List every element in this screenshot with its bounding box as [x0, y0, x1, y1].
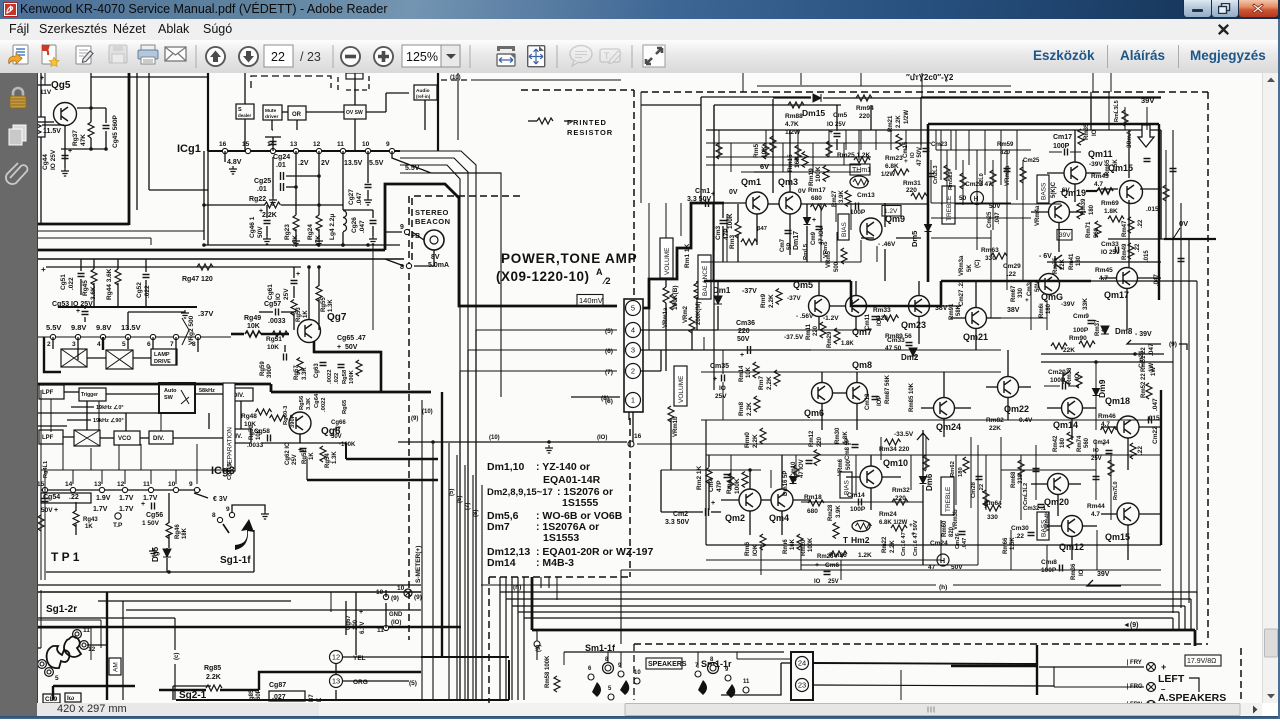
wire y352 bold — [314, 351, 381, 354]
svg-text:Rg56: Rg56 — [299, 395, 305, 410]
bold wires bottom left speakers — [508, 660, 510, 700]
svg-text:Cg44: Cg44 — [42, 154, 49, 170]
svg-text:47P: 47P — [716, 480, 723, 492]
svg-text:VRm4b: VRm4b — [1045, 511, 1051, 532]
svg-text:Cg45 560P: Cg45 560P — [112, 114, 119, 148]
svg-text:-37V: -37V — [742, 288, 757, 295]
wire x855 lower — [855, 455, 857, 495]
pin 9 stub switch — [229, 512, 234, 517]
wire top right corner — [1091, 96, 1161, 98]
svg-text:100: 100 — [353, 619, 359, 630]
bold corner bottom right — [951, 665, 1037, 667]
svg-text:STEREO: STEREO — [415, 208, 449, 217]
transistor Qm21 — [966, 308, 987, 329]
svg-text:4.7: 4.7 — [1094, 181, 1103, 188]
circled 13 ORG — [330, 675, 343, 688]
svg-text:22K: 22K — [989, 425, 1001, 432]
wires ICg3 blocks — [64, 391, 79, 393]
svg-text:Cm25: Cm25 — [1023, 158, 1040, 164]
svg-text:2: 2 — [631, 367, 635, 376]
wires bottom amp rows — [706, 559, 941, 561]
svg-text:1.3K: 1.3K — [328, 299, 334, 312]
svg-text:Qm10: Qm10 — [883, 458, 908, 468]
junction dots bus — [202, 243, 206, 247]
svg-text:Rm68: Rm68 — [1011, 471, 1017, 488]
svg-text:5: 5 — [631, 304, 635, 313]
wires Qm17 Qm15 — [1138, 277, 1161, 279]
boxed BASS lower — [1037, 512, 1049, 540]
svg-text:3: 3 — [72, 341, 76, 348]
connector circle 5 — [626, 301, 641, 316]
svg-text:50V: 50V — [737, 336, 750, 343]
boxed 39V — [1057, 230, 1072, 241]
svg-text:10: 10 — [376, 589, 384, 596]
wire y307 — [58, 306, 197, 308]
svg-text:◄(9): ◄(9) — [1123, 622, 1138, 629]
transistor QmG lower — [1055, 255, 1062, 269]
svg-text:Rm14: Rm14 — [739, 365, 745, 382]
svg-text:VOLUME: VOLUME — [678, 375, 685, 403]
svg-text:Trigger: Trigger — [81, 392, 98, 398]
svg-text:Cg46 1: Cg46 1 — [249, 216, 256, 238]
svg-text:.22: .22 — [1138, 219, 1144, 228]
wire Qg7 collector — [308, 267, 310, 320]
svg-text:Rm24: Rm24 — [879, 511, 897, 518]
svg-text:6: 6 — [147, 341, 151, 348]
svg-text:Rm25 1.2K: Rm25 1.2K — [837, 152, 871, 159]
svg-text:Cm28: Cm28 — [971, 481, 977, 498]
svg-text:RESISTOR: RESISTOR — [567, 128, 613, 137]
svg-text:.01: .01 — [276, 162, 286, 169]
wire pin9 diagonal — [392, 151, 501, 173]
svg-text:10: 10 — [397, 585, 405, 592]
sign/edit icon — [76, 46, 93, 64]
svg-text:.047: .047 — [359, 220, 366, 233]
svg-text:+: + — [1161, 662, 1166, 672]
svg-text:5(K)C: 5(K)C — [1051, 181, 1057, 198]
svg-text:Rg43: Rg43 — [83, 517, 98, 523]
box Mute driver — [263, 105, 282, 120]
svg-text:Dm2: Dm2 — [901, 353, 919, 362]
svg-text:Qm1: Qm1 — [741, 177, 761, 187]
svg-text:Cm16 47 50V: Cm16 47 50V — [913, 520, 919, 556]
svg-text:Rm82: Rm82 — [986, 417, 1004, 424]
svg-text:1S1555: 1S1555 — [562, 497, 598, 509]
resistor Rg44 3.6K — [115, 269, 121, 285]
paperclip icon — [6, 163, 28, 184]
svg-text:9: 9 — [386, 141, 390, 148]
wires from 24 23 — [813, 663, 1037, 664]
transistor Qm18 — [1117, 416, 1139, 438]
svg-text:+: + — [40, 75, 44, 82]
svg-text:OR: OR — [292, 112, 302, 118]
svg-text:Cm2Ĺ3: Cm2Ĺ3 — [932, 165, 939, 184]
svg-text:Rg59: Rg59 — [260, 361, 266, 376]
svg-text:Rm71: Rm71 — [1086, 221, 1092, 238]
box LPF 1 — [39, 385, 64, 399]
svg-text:1.7V: 1.7V — [143, 495, 158, 502]
svg-text:-1.2V: -1.2V — [823, 315, 839, 322]
upper right caps area — [1144, 159, 1151, 162]
svg-text:16: 16 — [634, 433, 642, 440]
svg-text:6.8K: 6.8K — [885, 163, 899, 170]
svg-text:10K: 10K — [267, 344, 279, 351]
bottom small boxes — [43, 694, 60, 703]
mixer crossbox 3 — [74, 430, 100, 446]
svg-text:22: 22 — [271, 50, 285, 64]
connector circle 4 — [626, 323, 641, 338]
svg-text:- 0.4V: - 0.4V — [1015, 417, 1033, 424]
svg-text:- .56V: - .56V — [796, 313, 814, 320]
svg-text:25V: 25V — [292, 454, 298, 465]
svg-text:Rm37: Rm37 — [1095, 319, 1101, 336]
svg-text:13.5V: 13.5V — [344, 160, 363, 167]
svg-text:50V: 50V — [41, 507, 53, 514]
component box at left edge — [31, 117, 45, 137]
pin (9) to switch — [534, 641, 540, 647]
wire pin bus extension — [150, 238, 152, 245]
bold wires mixers — [44, 337, 61, 372]
svg-text:VRm2: VRm2 — [683, 305, 689, 323]
svg-text:Dm1: Dm1 — [713, 286, 731, 295]
bold border vertical x128 — [128, 73, 131, 225]
resistor Rg23 10K — [293, 215, 299, 231]
svg-text:(8): (8) — [601, 395, 609, 402]
svg-text:BASS: BASS — [1040, 182, 1047, 200]
svg-text:Cg67: Cg67 — [346, 615, 352, 630]
top thin rail y86 — [757, 85, 1011, 87]
svg-text:+: + — [54, 507, 58, 514]
capacitor Cg52 .022 — [143, 275, 150, 278]
svg-text:2.2K: 2.2K — [746, 402, 753, 416]
wires Qm1 Qm3 top — [772, 99, 774, 193]
svg-text:(7): (7) — [465, 503, 471, 510]
svg-text:Cm16 47: Cm16 47 — [901, 532, 907, 556]
svg-text:Rm45: Rm45 — [1095, 267, 1113, 274]
boxed BIAS vertical — [838, 214, 849, 240]
svg-text:Qm6: Qm6 — [804, 408, 824, 418]
svg-text:Rm60: Rm60 — [942, 520, 948, 537]
svg-text:A.SPEAKERS: A.SPEAKERS — [1158, 692, 1226, 703]
svg-text:Cm7: Cm7 — [780, 238, 786, 252]
ICg3 pin stubs — [44, 470, 46, 484]
svg-text:VRm1a: VRm1a — [663, 307, 669, 328]
svg-text:.0033: .0033 — [268, 318, 286, 325]
resistor Rg53 1K — [291, 300, 297, 316]
wire top centre — [471, 79, 621, 81]
svg-text:CĹ9: CĹ9 — [45, 694, 58, 703]
svg-text:8: 8 — [212, 512, 216, 519]
svg-text:10: 10 — [168, 481, 176, 488]
bold feed tone stack — [928, 123, 1159, 126]
bus y350 — [811, 349, 1001, 351]
svg-text:-39V: -39V — [1061, 301, 1075, 308]
svg-text:60P: 60P — [256, 689, 262, 700]
svg-text:Rm89 56: Rm89 56 — [885, 333, 912, 340]
svg-text:5.5V: 5.5V — [46, 323, 61, 332]
svg-text:3.3 50V: 3.3 50V — [665, 519, 689, 526]
svg-text:Dm17: Dm17 — [793, 231, 800, 250]
svg-text:Rm87 56K: Rm87 56K — [885, 374, 891, 404]
svg-text:IO: IO — [910, 151, 916, 158]
wires Qm5 row — [830, 305, 845, 307]
svg-text:1.8K: 1.8K — [841, 341, 854, 347]
lamp stereo beacon — [424, 230, 444, 250]
svg-text:Rm2 1K: Rm2 1K — [696, 465, 703, 490]
svg-text:24: 24 — [798, 659, 806, 668]
svg-text:Dm8: Dm8 — [1115, 327, 1133, 336]
left edge marks icg1 — [44, 73, 46, 85]
transistor Qm22 — [998, 377, 1019, 398]
amp lower box — [705, 420, 707, 545]
svg-text:13: 13 — [94, 481, 102, 488]
res fillers tone top — [944, 165, 950, 181]
transistor Qm20 — [1048, 474, 1069, 495]
svg-text:❘FRG: ❘FRG — [1125, 683, 1143, 690]
svg-text:Rm11: Rm11 — [806, 323, 812, 340]
svg-text:Cm33: Cm33 — [1101, 241, 1119, 248]
down arrow 30mA — [1138, 125, 1154, 147]
create pdf icon — [42, 45, 59, 66]
svg-text:19kHz ∠0°: 19kHz ∠0° — [96, 404, 124, 411]
svg-text:1.2V: 1.2V — [884, 208, 898, 215]
svg-text:3: 3 — [631, 346, 635, 355]
transistor Qm11 — [1064, 162, 1086, 184]
svg-text:IO 25V: IO 25V — [827, 122, 846, 128]
boxed BASS vertical — [1037, 175, 1049, 203]
ICg2 pin row — [38, 336, 231, 338]
svg-text:Rm85 10K: Rm85 10K — [909, 382, 915, 412]
svg-text:Cg24: Cg24 — [273, 154, 290, 161]
fit page — [528, 46, 545, 67]
wire vertical x148 — [148, 73, 150, 190]
svg-text:6V: 6V — [760, 162, 769, 171]
svg-text:.37V: .37V — [198, 309, 213, 318]
svg-text:Qm2: Qm2 — [725, 513, 745, 523]
transistor Qm13 small — [1063, 371, 1070, 385]
left edge verticals lower — [40, 390, 42, 580]
switch contacts double circles — [73, 630, 82, 639]
svg-text:(IO): (IO) — [597, 435, 607, 441]
svg-text:180: 180 — [1060, 437, 1066, 448]
svg-text:Rm7Ĺ0: Rm7Ĺ0 — [1112, 481, 1119, 500]
bold wire into Qg7 — [231, 333, 244, 336]
transistor Qm24 — [934, 398, 955, 419]
svg-text:A: A — [596, 267, 603, 277]
svg-text:9: 9 — [400, 224, 404, 231]
svg-text:Rg60-3: Rg60-3 — [283, 405, 289, 425]
svg-text:.015: .015 — [1146, 206, 1159, 213]
svg-text:6: 6 — [588, 666, 592, 672]
svg-text:SPEAKERS: SPEAKERS — [648, 661, 687, 668]
svg-text:.22: .22 — [1135, 243, 1141, 252]
speaker switch contacts — [588, 674, 594, 680]
svg-text:RmĹ3Ĺ5: RmĹ3Ĺ5 — [1113, 100, 1120, 122]
svg-text:Cm27 .22: Cm27 .22 — [959, 279, 965, 306]
svg-text:1K: 1K — [309, 452, 315, 460]
svg-text:+: + — [41, 265, 46, 274]
svg-text:Cmι9: Cmι9 — [1073, 313, 1089, 320]
mixer crossbox 1 — [61, 349, 87, 367]
svg-text:Qm17: Qm17 — [1104, 290, 1129, 300]
resistor Rg55 1.3K — [316, 286, 322, 302]
transistor Qm12 — [1062, 516, 1083, 537]
svg-text:3.3 50V: 3.3 50V — [687, 196, 711, 203]
svg-text:+: + — [259, 208, 263, 215]
svg-text:Rm49: Rm49 — [1122, 243, 1128, 260]
svg-text:500: 500 — [834, 261, 840, 272]
svg-text:Qm24: Qm24 — [936, 422, 961, 432]
svg-text:Cg25: Cg25 — [254, 178, 271, 185]
long dashed vertical x633 — [633, 90, 635, 297]
svg-text:5: 5 — [608, 686, 612, 692]
svg-text:Rg22: Rg22 — [249, 196, 266, 203]
svg-text:.022: .022 — [334, 373, 340, 384]
svg-text:IOK: IOK — [752, 544, 759, 556]
svg-text:Cg62 IO: Cg62 IO — [285, 442, 291, 465]
transistor Qm2 — [739, 489, 761, 511]
svg-text:820: 820 — [1000, 150, 1011, 156]
ICg3 pin bus — [41, 489, 201, 491]
wires ICg2 pins down — [52, 337, 54, 349]
svg-text:(5): (5) — [409, 680, 417, 687]
treble box upper — [942, 186, 955, 224]
svg-text:(10): (10) — [489, 435, 500, 441]
wires Qm22 — [1007, 398, 1009, 420]
wires between Qm1 row and bias — [712, 203, 714, 262]
capacitor Cg45 560P — [103, 126, 110, 129]
dashed top-centre fragments — [438, 73, 471, 80]
speaker switch blades — [592, 680, 629, 697]
bus (h) line — [481, 584, 936, 586]
svg-text:25V: 25V — [283, 288, 290, 300]
svg-text:100P: 100P — [1073, 327, 1089, 334]
box Head small — [346, 73, 363, 79]
wire x372 連 — [372, 245, 374, 330]
svg-text:25V: 25V — [828, 579, 839, 585]
boxed label BALANCE — [698, 255, 711, 299]
boxed BIAS vertical lower — [840, 472, 852, 498]
capacitor Cm6 10 25V — [824, 572, 831, 575]
wires Qm20 Qm12 — [1031, 483, 1047, 485]
bold vertical x437 top — [437, 73, 439, 151]
transistor Qg6 — [289, 412, 311, 434]
svg-text:H: H — [974, 196, 979, 203]
svg-text:BIAS: BIAS — [841, 222, 848, 237]
svg-text:.047: .047 — [962, 538, 968, 549]
svg-text:12: 12 — [117, 481, 125, 488]
svg-text:(IO): (IO) — [391, 620, 401, 626]
svg-text:10: 10 — [634, 670, 641, 676]
dashed section border vertical x408 — [408, 196, 410, 640]
svg-text:Rg47 120: Rg47 120 — [182, 276, 213, 283]
svg-text:€ 3V: € 3V — [213, 496, 228, 503]
svg-text:2.2K: 2.2K — [206, 674, 221, 681]
svg-text:Cg51: Cg51 — [60, 274, 67, 290]
print icon — [138, 45, 158, 64]
zoom in — [373, 46, 394, 67]
svg-text:+: + — [337, 344, 341, 351]
svg-text:Rg54: Rg54 — [325, 453, 331, 468]
svg-text:Qm19: Qm19 — [1061, 188, 1086, 198]
ICg1 pins 16-9 — [222, 148, 227, 153]
top edge stubs above amp — [742, 73, 744, 92]
transistor Qm1 — [746, 192, 768, 214]
svg-text:Rg55: Rg55 — [321, 297, 327, 312]
svg-text:Cg54: Cg54 — [43, 494, 60, 501]
svg-text:2.2K: 2.2K — [896, 115, 902, 128]
connector box 24 23 — [791, 652, 813, 700]
box AM vertical — [109, 658, 121, 675]
svg-text:5.5V: 5.5V — [369, 160, 384, 167]
svg-text:1.7V: 1.7V — [119, 495, 134, 502]
svg-text:SW: SW — [164, 395, 174, 401]
bold bus y250 — [38, 249, 385, 252]
misc vertical wires amp2 — [820, 203, 822, 222]
switch arrow Sg1-1f — [235, 519, 254, 550]
thin staircase wires to connectors — [400, 151, 617, 330]
svg-text:10K: 10K — [247, 323, 260, 330]
thermistor THm1 — [850, 164, 870, 175]
ground Cg25 — [269, 197, 277, 205]
svg-text:Qm15: Qm15 — [1105, 532, 1130, 542]
svg-text:19kHz ∠90°: 19kHz ∠90° — [93, 417, 124, 424]
svg-text:Cm22: Cm22 — [1152, 426, 1159, 444]
svg-text:39V: 39V — [1059, 232, 1071, 239]
svg-text:(9): (9) — [414, 594, 422, 601]
svg-text:Cg57: Cg57 — [264, 301, 281, 308]
save icon (disabled) — [109, 45, 127, 63]
dashed box top1 — [251, 76, 331, 88]
svg-text:IO: IO — [275, 293, 282, 300]
svg-text:Cm23: Cm23 — [931, 142, 948, 148]
svg-text:Rg85: Rg85 — [204, 665, 221, 672]
box DIV 2 — [149, 431, 173, 444]
svg-text:12: 12 — [88, 646, 96, 653]
vertical wires centre going down — [556, 577, 558, 600]
svg-text:1/2W: 1/2W — [881, 172, 895, 178]
svg-text:Rg4Ĺ1: Rg4Ĺ1 — [42, 461, 49, 478]
wires Qm6 row — [821, 404, 823, 430]
svg-text:: YZ-140 or: : YZ-140 or — [536, 461, 590, 473]
svg-text:Cg26: Cg26 — [351, 217, 358, 233]
svg-text:Rm17: Rm17 — [808, 187, 826, 194]
bold right vertical — [1158, 124, 1160, 300]
svg-text:Qm18: Qm18 — [1105, 396, 1130, 406]
resistor Rg54 1.3K — [320, 446, 326, 462]
svg-text:13: 13 — [332, 677, 340, 686]
svg-text:Cg87: Cg87 — [269, 682, 286, 689]
wire y267 with Rg47 — [46, 266, 301, 268]
svg-text:(7): (7) — [605, 369, 613, 376]
wire row 2 speakers — [737, 658, 791, 660]
svg-text:- .46V: - .46V — [878, 241, 896, 248]
svg-text:Cg65 .47: Cg65 .47 — [337, 335, 366, 342]
wire y570 39V rail — [621, 569, 1161, 571]
svg-text:IO: IO — [719, 385, 726, 392]
circled 23 — [796, 679, 809, 692]
svg-text:T: T — [604, 51, 610, 61]
svg-text:T.P: T.P — [113, 522, 123, 529]
nested bus rectangles — [500, 591, 1197, 593]
transistor Qm14 — [1062, 398, 1083, 419]
svg-text:Rm36: Rm36 — [1071, 563, 1077, 580]
svg-text:S-METER(+): S-METER(+) — [415, 546, 422, 583]
dashed border right — [1207, 92, 1209, 641]
svg-text:Rg44 3.6K: Rg44 3.6K — [106, 268, 113, 300]
wires y354 y362 right — [1041, 353, 1164, 355]
svg-text:Dm2,8,9,15~17: Dm2,8,9,15~17 — [487, 487, 553, 498]
